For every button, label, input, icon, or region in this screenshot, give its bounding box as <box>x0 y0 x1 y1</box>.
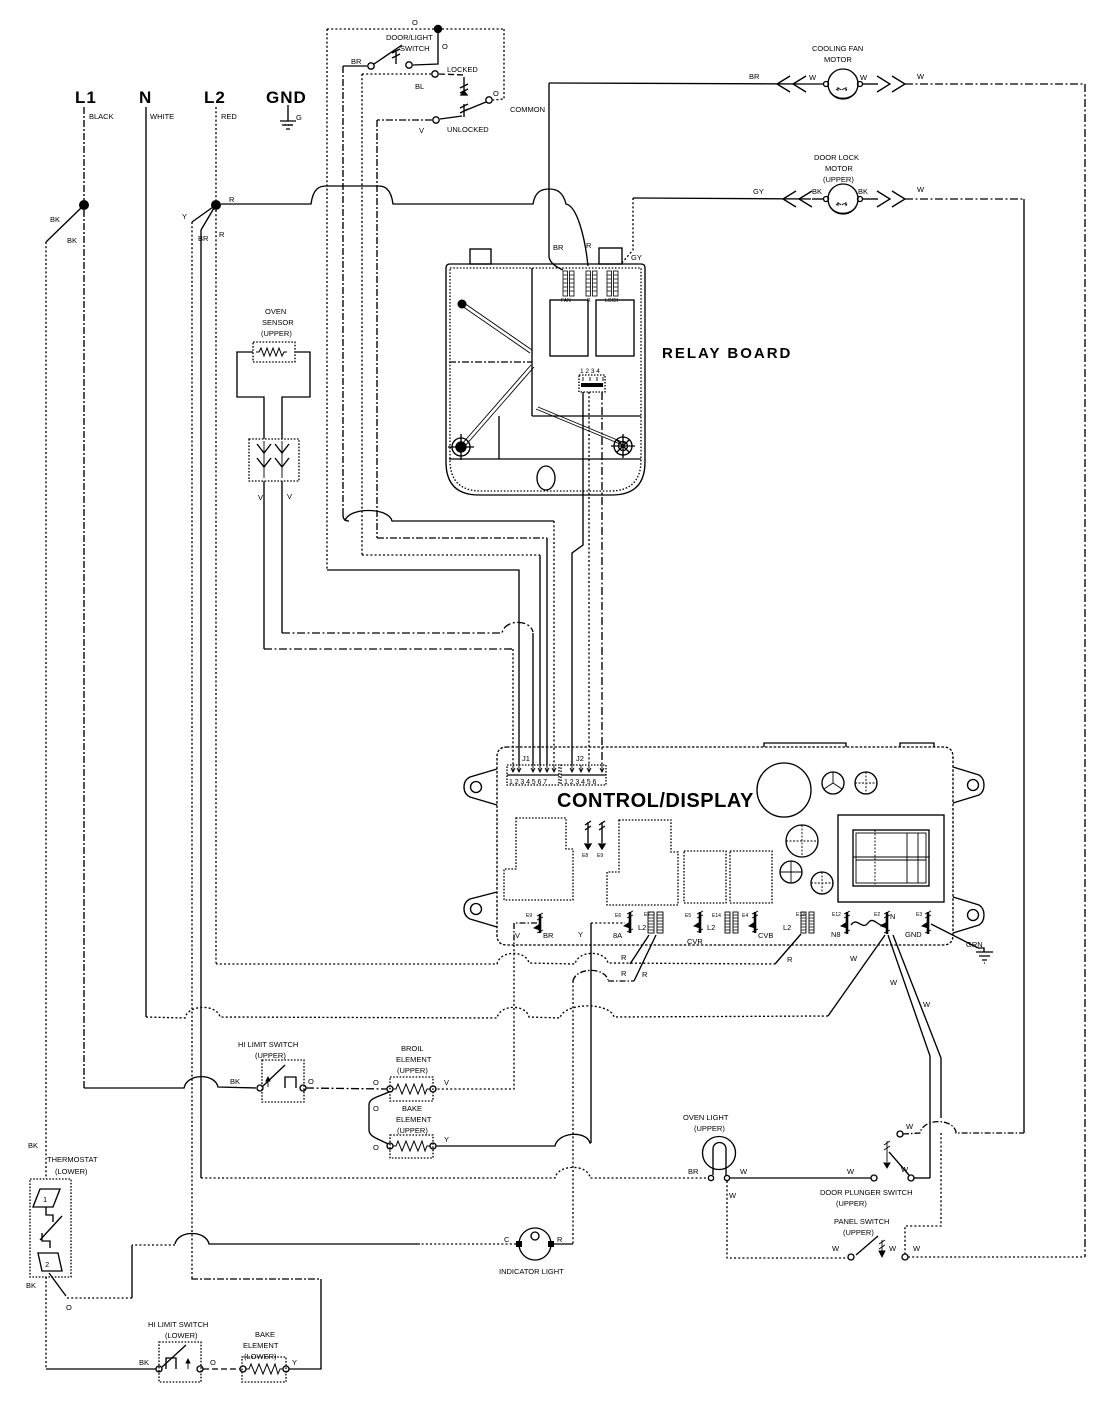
svg-text:V: V <box>444 1078 449 1087</box>
wire upper contact to lock W line <box>903 1122 1024 1134</box>
relay K2 <box>596 300 634 356</box>
label BR <box>688 1167 699 1176</box>
svg-text:O: O <box>373 1078 379 1087</box>
contact circle right <box>430 1086 436 1092</box>
relay board divider vertical <box>531 268 533 416</box>
node junction L2 <box>211 200 221 210</box>
ear bottom-right <box>953 897 984 933</box>
svg-text:INDICATOR LIGHT: INDICATOR LIGHT <box>499 1267 564 1276</box>
svg-text:Y: Y <box>292 1358 297 1367</box>
contact circle left <box>240 1366 246 1372</box>
label BAKE ELEMENT (UPPER) <box>396 1104 432 1135</box>
svg-text:1234567: 1234567 <box>509 779 549 786</box>
wire Y lower drop <box>289 1279 321 1369</box>
label CVR L2 <box>687 923 715 946</box>
relay outline 2 <box>607 820 678 905</box>
contact circle left <box>387 1143 393 1149</box>
bake element (lower) <box>240 1330 297 1382</box>
wire R vertical <box>215 210 217 963</box>
wire fan right dashdot <box>905 83 1085 85</box>
svg-text:V: V <box>515 931 520 940</box>
connector E13 <box>796 912 814 933</box>
switch blade common <box>464 102 486 111</box>
motor coils <box>836 202 847 206</box>
svg-text:COOLING FAN: COOLING FAN <box>812 44 863 53</box>
connector chevrons right <box>877 191 905 207</box>
svg-text:SENSOR: SENSOR <box>262 318 294 327</box>
svg-text:THERMOSTAT: THERMOSTAT <box>47 1155 98 1164</box>
contact circle right <box>724 1175 729 1180</box>
bake lower box <box>242 1357 286 1382</box>
svg-text:ELEMENT: ELEMENT <box>243 1341 279 1350</box>
transformer outer <box>838 815 944 902</box>
locked contact <box>362 65 478 95</box>
svg-text:O: O <box>373 1104 379 1113</box>
label O <box>442 42 448 51</box>
svg-text:E7: E7 <box>644 912 650 918</box>
door lock motor <box>633 153 1024 214</box>
motor terminal circle right <box>858 197 863 202</box>
wire BK below thermostat <box>45 1277 47 1369</box>
label CONTROL/DISPLAY <box>557 790 754 812</box>
terminal E2 <box>874 911 890 934</box>
wire to motor <box>806 83 824 85</box>
label Y <box>292 1358 297 1367</box>
svg-text:L2: L2 <box>707 923 715 932</box>
common contact <box>460 89 545 117</box>
wire R indicator segment <box>573 970 634 981</box>
svg-text:V: V <box>287 492 292 501</box>
svg-text:R: R <box>642 970 648 979</box>
connector J1 label <box>522 754 530 763</box>
component square 4 <box>730 851 772 903</box>
sensor connector chevrons right <box>275 444 289 467</box>
relay board diagonal brace left <box>462 365 534 446</box>
wire Y diagonal <box>192 207 213 222</box>
svg-text:CVB: CVB <box>758 931 773 940</box>
broil element (upper) <box>387 1044 436 1101</box>
contact circle left <box>257 1085 263 1091</box>
wire fan W right vertical <box>1084 84 1086 1257</box>
svg-text:DOOR PLUNGER SWITCH: DOOR PLUNGER SWITCH <box>820 1188 913 1197</box>
wire oven light to plunger <box>730 1177 871 1179</box>
wire BL line to J1 pin4 <box>362 554 540 556</box>
svg-text:W: W <box>729 1191 737 1200</box>
relay board inner dotted border <box>450 268 641 491</box>
sensor connector box <box>249 439 299 481</box>
wire W jog to panel switch dotted <box>905 1133 941 1254</box>
label W <box>832 1244 840 1253</box>
connector E7 <box>644 912 663 933</box>
J2 pin arrows <box>570 765 604 772</box>
wire BR oven light line <box>201 1167 708 1178</box>
relay board tab top-right GY <box>599 248 622 264</box>
svg-text:BROIL: BROIL <box>401 1044 424 1053</box>
label W <box>850 954 858 963</box>
bake box <box>390 1135 433 1158</box>
bake zigzag <box>393 1141 430 1151</box>
svg-text:W: W <box>901 1165 909 1174</box>
thermostat (lower) <box>26 1141 98 1312</box>
svg-text:J2: J2 <box>576 754 584 763</box>
svg-text:W: W <box>860 73 868 82</box>
wire fan left <box>549 83 806 84</box>
svg-text:O: O <box>412 18 418 27</box>
contact circle common <box>486 97 492 103</box>
J1 pin arrows <box>511 765 556 772</box>
svg-text:LOCK: LOCK <box>605 298 619 304</box>
wire sensor right leg <box>281 481 283 633</box>
svg-text:V: V <box>419 126 424 135</box>
wire O dotted vertical <box>326 29 328 570</box>
wire BK vertical to thermostat <box>45 242 47 1179</box>
label HI LIMIT SWITCH (LOWER) <box>148 1320 208 1340</box>
svg-text:UNLOCKED: UNLOCKED <box>447 125 489 134</box>
label Y <box>578 930 583 939</box>
wire dotted top right <box>442 28 504 30</box>
board edge tab 1 <box>764 743 846 747</box>
wire L1 drop <box>83 107 85 200</box>
terminal E3 <box>916 911 931 934</box>
svg-text:BR: BR <box>351 57 362 66</box>
wire V dashdot vertical <box>376 120 378 538</box>
relay board outline <box>446 264 645 495</box>
svg-text:(UPPER): (UPPER) <box>397 1066 428 1075</box>
label N <box>890 912 895 921</box>
svg-text:R: R <box>219 230 225 239</box>
svg-text:BK: BK <box>67 236 77 245</box>
wire C line to thermostat dotted <box>67 1297 132 1299</box>
relay K1 <box>550 300 588 356</box>
wire drop to J1 pin1 <box>512 649 514 765</box>
svg-text:L2: L2 <box>638 923 646 932</box>
svg-text:COMMON: COMMON <box>510 105 545 114</box>
svg-text:BK: BK <box>230 1077 240 1086</box>
label UNLOCKED <box>419 125 489 135</box>
sensor resistor zigzag <box>256 348 287 356</box>
wire R diagonal to E13 <box>775 934 801 964</box>
svg-text:W: W <box>917 185 925 194</box>
wire O line to J1 pin2 <box>327 570 519 765</box>
contact circle right <box>197 1366 203 1372</box>
wire sensor left to J1 dashdot <box>264 648 513 650</box>
svg-text:E14: E14 <box>712 913 721 919</box>
connector chevrons left <box>783 191 812 207</box>
transformer inner <box>853 830 929 886</box>
svg-text:(UPPER): (UPPER) <box>261 329 292 338</box>
switch box <box>159 1342 201 1382</box>
svg-text:Y: Y <box>444 1135 449 1144</box>
ear bottom-left <box>464 892 497 927</box>
buzzer big circle <box>757 763 811 817</box>
svg-text:E3: E3 <box>916 912 922 918</box>
connector 1234 label <box>580 368 600 375</box>
relay board tab top-left <box>470 249 491 264</box>
label W W <box>889 1244 921 1253</box>
relay board screw right <box>611 434 635 458</box>
cooling fan motor <box>549 44 1085 99</box>
wire oven light W drop <box>727 1181 848 1258</box>
svg-text:E9: E9 <box>597 853 603 859</box>
svg-text:GY: GY <box>631 253 642 262</box>
svg-text:N: N <box>890 912 895 921</box>
wire R branch diagonals to E7 <box>630 935 656 981</box>
wire from motor <box>862 83 878 85</box>
label BROIL ELEMENT (UPPER) <box>396 1044 432 1075</box>
wire Y drop <box>590 923 592 945</box>
svg-text:MOTOR: MOTOR <box>824 55 852 64</box>
wire V line to J1 pin5 <box>377 537 547 539</box>
label O O <box>373 1104 379 1152</box>
contact circle BR <box>368 63 374 69</box>
lamp inner circle <box>531 1232 539 1240</box>
svg-text:W: W <box>850 954 858 963</box>
relay board divider horizontal <box>449 361 532 363</box>
svg-text:R: R <box>229 195 235 204</box>
wire BK L1 to switch <box>84 1077 256 1088</box>
label O <box>66 1303 72 1312</box>
svg-text:(UPPER): (UPPER) <box>255 1051 286 1060</box>
wire Y line below board <box>590 945 592 1143</box>
wire lock W right vertical <box>1023 199 1025 1133</box>
svg-text:FAN: FAN <box>561 298 571 304</box>
wire BK diagonal from L1 <box>46 208 81 242</box>
switch blade <box>374 45 402 64</box>
label OVEN LIGHT (UPPER) <box>683 1113 729 1133</box>
switch blade <box>263 1065 285 1086</box>
label GND <box>905 930 922 939</box>
component square 3 <box>684 851 726 903</box>
svg-text:R: R <box>787 955 793 964</box>
svg-text:W: W <box>847 1167 855 1176</box>
svg-text:DOOR LOCK: DOOR LOCK <box>814 153 859 162</box>
wire Y bake to board <box>436 1134 591 1146</box>
connector J2 <box>561 765 606 786</box>
svg-text:R: R <box>557 1235 563 1244</box>
connector 1234 <box>579 375 605 392</box>
svg-text:GY: GY <box>753 187 764 196</box>
label BK <box>230 1077 240 1086</box>
terminal E12 <box>832 911 850 934</box>
svg-text:(UPPER): (UPPER) <box>397 1126 428 1135</box>
wire BK to switch <box>46 1368 156 1370</box>
motor coils <box>836 87 847 91</box>
label N8 <box>831 930 841 939</box>
label DOOR PLUNGER SWITCH (UPPER) <box>820 1188 913 1208</box>
wire fan BR drop to relay <box>549 83 563 270</box>
wire to motor <box>812 198 824 200</box>
svg-text:GRN: GRN <box>966 940 983 949</box>
switch blade <box>889 1152 909 1175</box>
svg-text:(UPPER): (UPPER) <box>843 1228 874 1237</box>
wire BR left <box>343 65 367 67</box>
wire W diagonal to E2 <box>828 935 885 1016</box>
connector J2 label <box>576 754 584 763</box>
label R R R <box>621 953 648 979</box>
relay board screw left <box>448 434 474 460</box>
sensor legs through connector <box>264 441 282 478</box>
terminal E5 <box>685 911 703 933</box>
broil box <box>390 1077 433 1101</box>
relay board diagonal brace right <box>536 407 627 446</box>
svg-text:BAKE: BAKE <box>402 1104 422 1113</box>
svg-text:L1: L1 <box>75 88 97 107</box>
svg-text:E5: E5 <box>685 913 691 919</box>
switch step <box>285 1077 296 1088</box>
node L1 label <box>75 88 114 121</box>
label THERMOSTAT (LOWER) <box>47 1155 98 1176</box>
svg-text:ELEMENT: ELEMENT <box>396 1055 432 1064</box>
svg-text:BK: BK <box>50 215 60 224</box>
label W W <box>890 978 931 1009</box>
contact circle left <box>708 1175 713 1180</box>
connector chevrons right <box>877 76 905 92</box>
contact circle locked <box>432 71 438 77</box>
svg-text:E4: E4 <box>742 913 748 919</box>
svg-text:R: R <box>586 241 592 250</box>
svg-text:W: W <box>890 978 898 987</box>
wire sensor left leg <box>263 481 265 649</box>
svg-text:BL: BL <box>415 82 424 91</box>
contact circle left <box>387 1086 393 1092</box>
switch arrow <box>266 1077 270 1087</box>
label V V <box>258 492 292 502</box>
bulb inner <box>713 1143 726 1175</box>
relay board lever diagonal <box>462 303 532 353</box>
svg-text:(UPPER): (UPPER) <box>823 175 854 184</box>
bake element (upper) <box>387 1104 449 1158</box>
motor circle <box>828 184 858 214</box>
wire to bake lower <box>203 1368 240 1370</box>
relay pin LOCK <box>607 271 618 296</box>
relay board bottom rail <box>449 458 641 460</box>
relay outline 1 <box>504 818 573 900</box>
wire drop to J1 pin4 <box>539 555 541 765</box>
connector E14 <box>712 912 738 933</box>
wire R E13 line across <box>216 953 775 964</box>
wire BR hook and bump to J1 pin6 <box>343 511 554 522</box>
svg-text:E13: E13 <box>796 912 805 918</box>
wire C line across solid <box>175 1234 420 1245</box>
wire Y jog to E6 <box>591 922 625 924</box>
label BK <box>28 1141 38 1150</box>
sensor connector chevrons left <box>257 444 271 467</box>
svg-text:BR: BR <box>543 931 554 940</box>
label INDICATOR LIGHT <box>499 1267 564 1276</box>
label RELAY BOARD <box>662 345 792 362</box>
switch box <box>262 1060 304 1102</box>
wire terminal2 diagonal <box>49 1273 66 1296</box>
sensor bracket left <box>237 352 264 439</box>
terminal E9 <box>526 913 543 933</box>
actuator arrow <box>392 49 400 64</box>
contact circle upper <box>897 1131 903 1137</box>
wire C line dotted left <box>132 1244 175 1246</box>
svg-text:V: V <box>258 493 263 502</box>
contact circle lower-right <box>908 1175 914 1181</box>
svg-text:BK: BK <box>812 187 822 196</box>
wire W diagonal E2 to panel <box>893 935 941 1118</box>
svg-text:SWITCH: SWITCH <box>400 44 430 53</box>
switch arrow <box>186 1359 190 1369</box>
svg-text:L2: L2 <box>783 923 791 932</box>
contact circle left <box>156 1366 162 1372</box>
svg-text:Y: Y <box>578 930 583 939</box>
small circle 3-spoke <box>822 772 844 794</box>
broil zigzag <box>393 1084 430 1094</box>
label R <box>787 955 793 964</box>
svg-text:O: O <box>442 42 448 51</box>
label W upper <box>906 1122 914 1131</box>
terminal 2 parallelogram <box>38 1253 62 1271</box>
svg-text:O: O <box>210 1358 216 1367</box>
terminal E4 <box>742 911 758 933</box>
wire switch arm stub <box>413 33 438 65</box>
svg-text:BK: BK <box>139 1358 149 1367</box>
wire R indicator vertical <box>572 981 574 1244</box>
svg-text:E12: E12 <box>832 912 841 918</box>
wire BL dotted vertical <box>361 74 363 555</box>
wire dotted top left <box>327 28 434 30</box>
terminal left <box>516 1241 522 1247</box>
svg-text:BR: BR <box>198 234 209 243</box>
wire common drop <box>493 29 504 100</box>
wire wavy E12 to E2 <box>851 920 884 925</box>
motor terminal circle <box>824 82 829 87</box>
relay pin R <box>586 271 597 296</box>
small circle plain <box>780 861 802 883</box>
wire R from vertical <box>554 1243 573 1245</box>
svg-text:N8: N8 <box>831 930 841 939</box>
wire drop to J1 pin5 <box>546 538 548 765</box>
wire N vertical <box>145 107 147 1017</box>
svg-text:R: R <box>621 969 627 978</box>
svg-text:OVEN LIGHT: OVEN LIGHT <box>683 1113 729 1122</box>
contact circle right <box>283 1366 289 1372</box>
svg-text:123456: 123456 <box>564 779 598 786</box>
svg-text:O: O <box>493 89 499 98</box>
wire relay P2 to J2 <box>588 392 590 765</box>
oven light (upper) <box>683 1113 748 1200</box>
wire W diagonal E2 to plunger <box>888 935 930 1178</box>
oven sensor (upper) <box>237 307 310 502</box>
terminal right <box>548 1241 554 1247</box>
svg-text:BLACK: BLACK <box>89 112 114 121</box>
label O top <box>412 18 418 27</box>
relay board oval hole <box>537 466 555 490</box>
terminal E6 <box>615 911 633 933</box>
contact circle right <box>902 1254 908 1260</box>
board edge tab 2 <box>900 743 934 747</box>
svg-text:O: O <box>308 1077 314 1086</box>
actuator arrow <box>884 1141 890 1168</box>
svg-text:E6: E6 <box>615 913 621 919</box>
hi limit switch (upper) <box>84 1040 314 1102</box>
svg-text:DOOR/LIGHT: DOOR/LIGHT <box>386 33 433 42</box>
control/display board <box>464 743 984 945</box>
label BK <box>50 215 77 245</box>
label O <box>373 1078 379 1087</box>
wire locked right dash <box>439 74 464 75</box>
svg-text:BR: BR <box>553 243 564 252</box>
test point arrows E8 E9 <box>582 821 605 859</box>
relay board pivot dot <box>458 300 467 309</box>
svg-text:RELAY BOARD: RELAY BOARD <box>662 345 792 362</box>
ear top-right <box>953 767 984 803</box>
wire right dotted to fan W <box>908 1256 1085 1258</box>
svg-text:G: G <box>296 113 302 122</box>
svg-text:CVR: CVR <box>687 937 703 946</box>
